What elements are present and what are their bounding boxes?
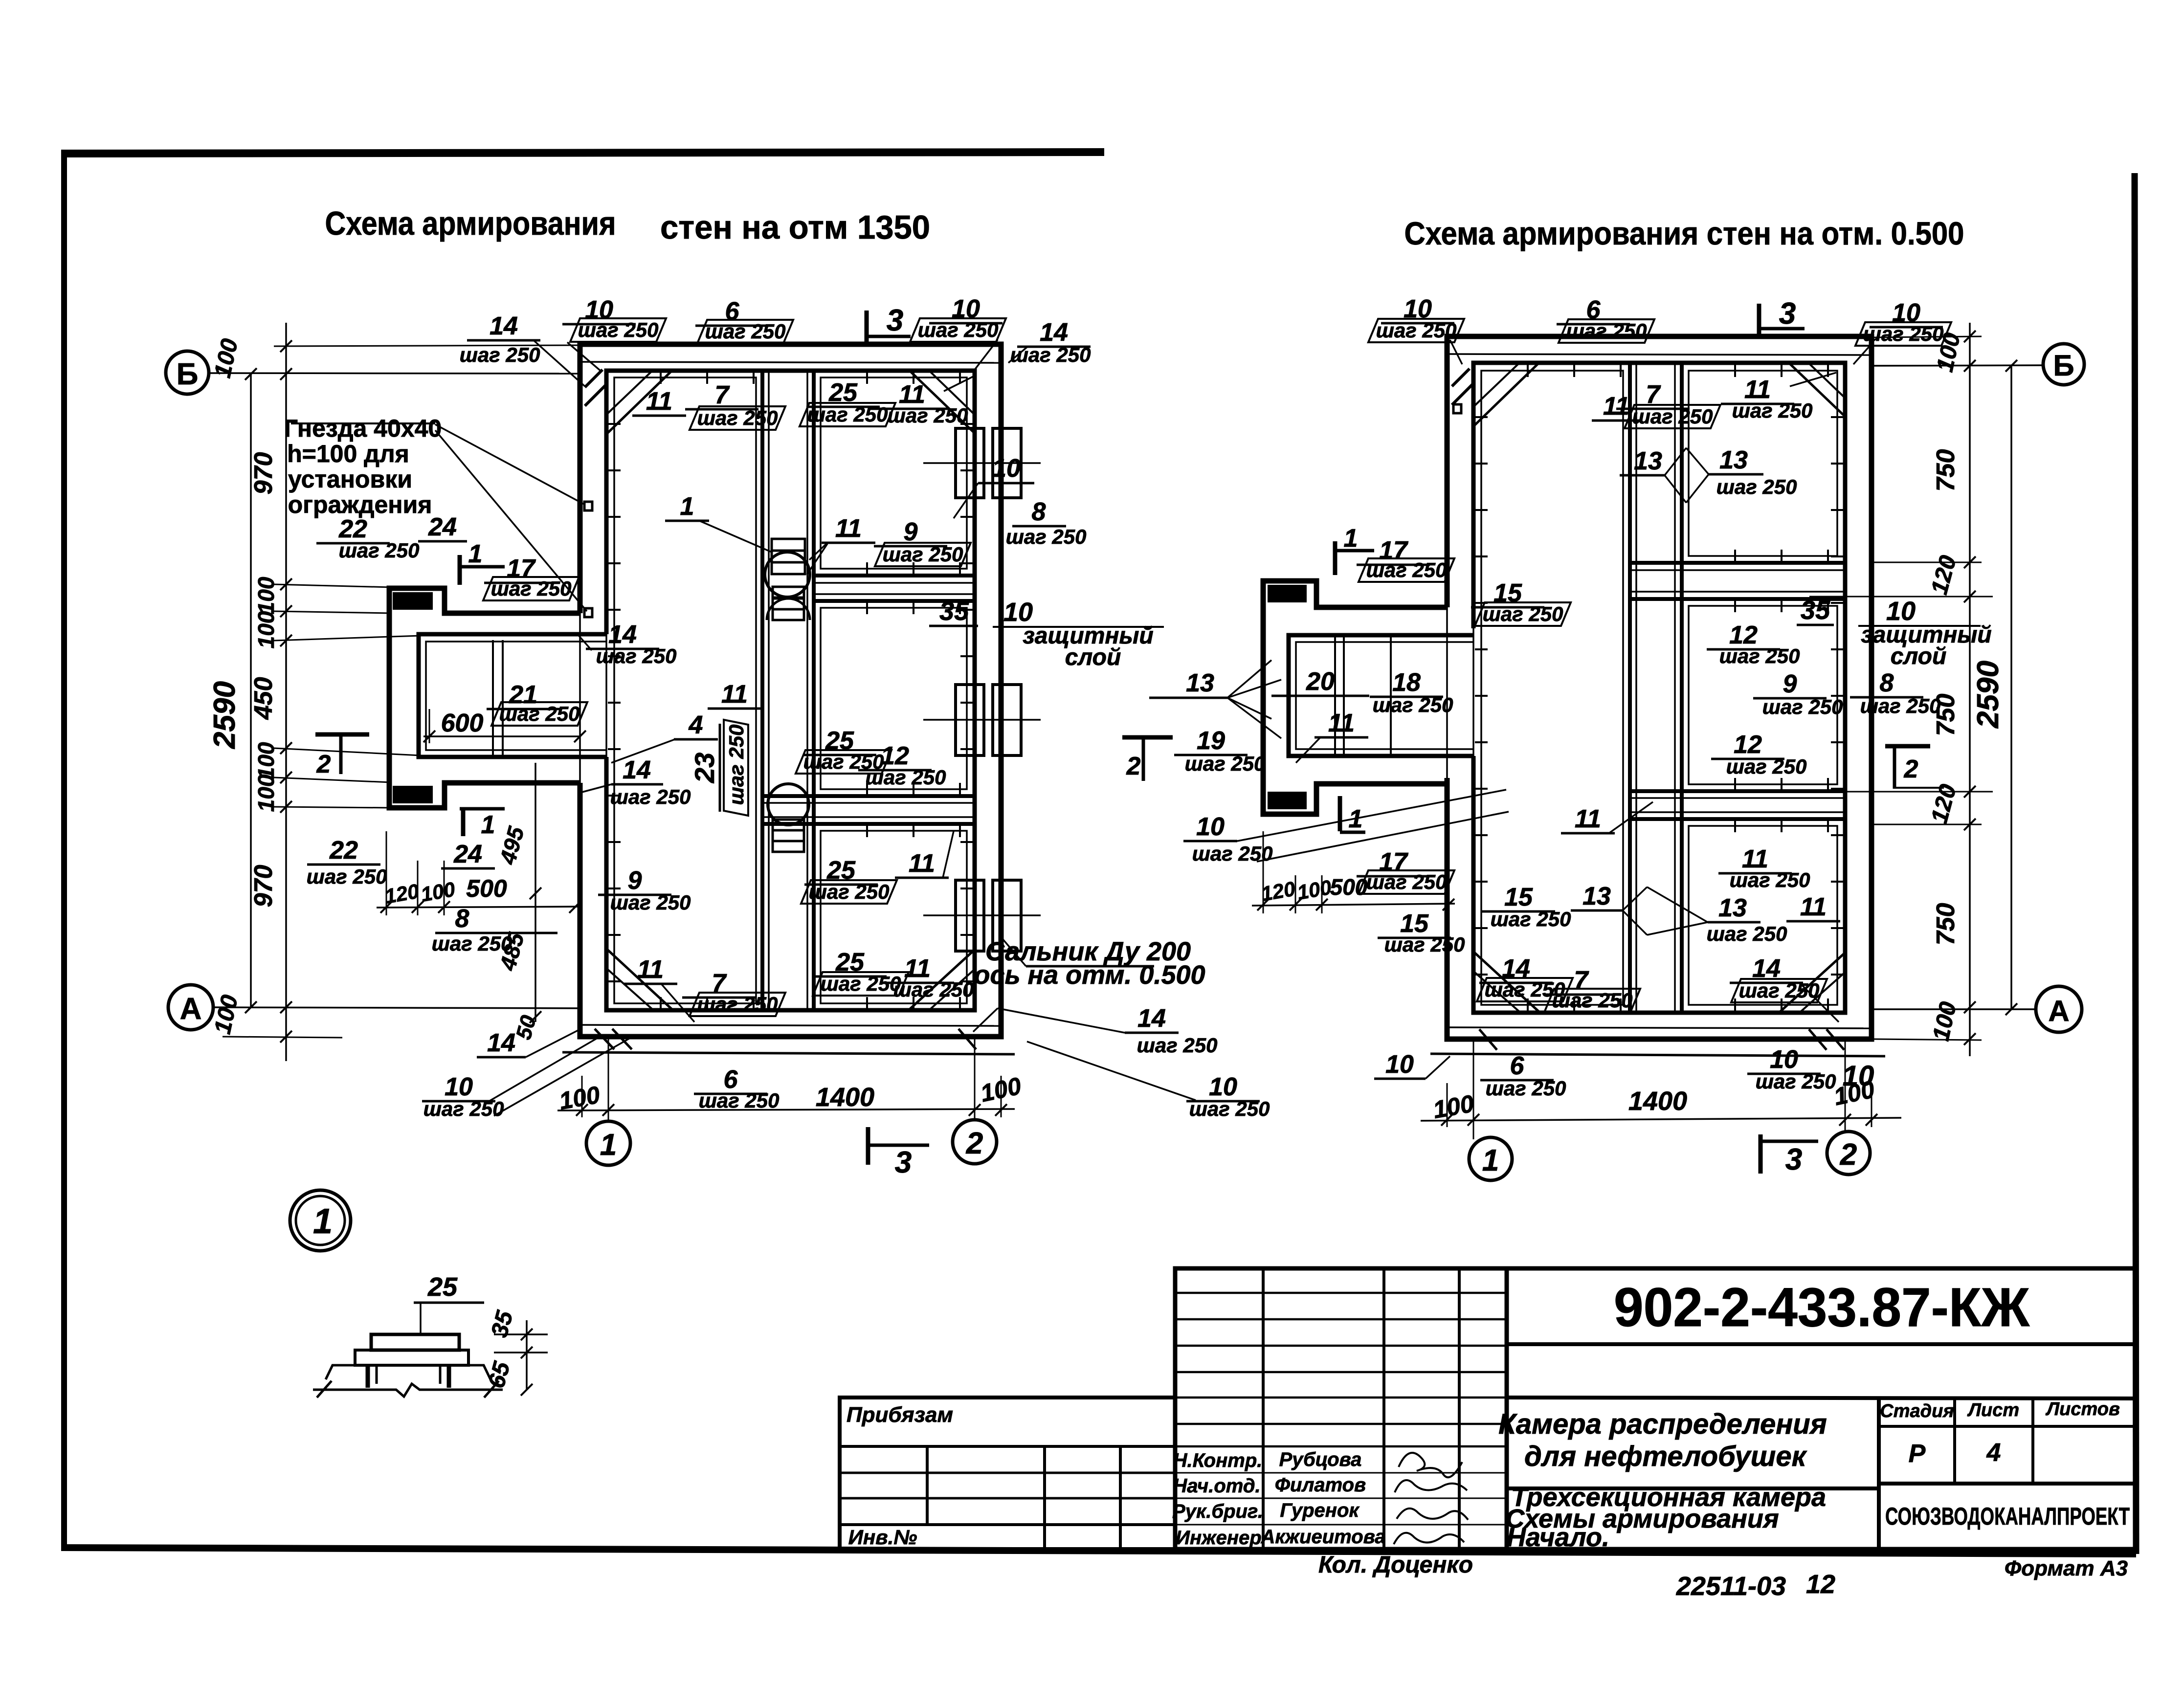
- label 11 bottom area: [624, 955, 677, 984]
- svg-text:шаг 250: шаг 250: [1730, 868, 1810, 891]
- right plan top wall mid rebar line: [1447, 354, 1872, 355]
- svg-text:2590: 2590: [1971, 661, 2005, 729]
- title block outer: [1175, 1268, 2136, 1549]
- svg-text:для нефтелобушек: для нефтелобушек: [1524, 1441, 1807, 1472]
- leader: [973, 340, 998, 372]
- section mark 2 left of right plan: [1122, 737, 1173, 781]
- section mark 3 bottom right plan: [1761, 1134, 1818, 1176]
- svg-text:Кол. Доценко: Кол. Доценко: [1318, 1552, 1473, 1578]
- axis А left line: [213, 1007, 580, 1008]
- svg-text:шаг 250: шаг 250: [610, 785, 691, 808]
- svg-text:Рубцова: Рубцова: [1279, 1449, 1362, 1470]
- svg-text:шаг 250: шаг 250: [1137, 1034, 1218, 1057]
- small table vertical lines: [1877, 1398, 1881, 1549]
- left chain tick: [280, 772, 292, 783]
- label 22 шаг250 left upper: [316, 515, 419, 562]
- right plan niche inner contour: [1289, 635, 1473, 756]
- right plan socket square on left wall: [1453, 404, 1461, 413]
- label 8 шаг250 right plan outside: [1850, 669, 1940, 717]
- svg-text:13: 13: [1186, 669, 1214, 697]
- svg-text:Камера распределения: Камера распределения: [1498, 1408, 1827, 1440]
- label 12 шаг250 above wall B: [858, 742, 946, 789]
- svg-text:установки: установки: [288, 466, 412, 493]
- niche dim line right plan: [1252, 904, 1455, 906]
- axis А right circle: [2036, 986, 2082, 1032]
- svg-text:шаг 250: шаг 250: [1863, 322, 1944, 345]
- svg-text:1400: 1400: [1628, 1087, 1687, 1116]
- label 11 below wall B right: [895, 849, 949, 878]
- svg-text:13: 13: [1582, 882, 1611, 910]
- niche dim tick: [569, 901, 581, 913]
- label 7 шаг250 under top wall: [685, 381, 785, 430]
- label 25 шаг250 below wall B: [801, 856, 897, 904]
- niche dim tick right: [1443, 899, 1454, 910]
- leaders 14: [998, 1008, 1125, 1033]
- svg-text:4: 4: [1986, 1439, 2001, 1467]
- right plan rebar rect cell2: [1689, 606, 1837, 784]
- right chain tick: [1964, 1001, 1976, 1013]
- right chain extension lines: [1874, 336, 1982, 337]
- note Гнезда 40х40 text block: [284, 415, 442, 518]
- svg-text:11: 11: [1575, 805, 1601, 833]
- svg-text:11: 11: [835, 514, 862, 543]
- label 14 шаг250 far top-right: [1010, 318, 1091, 366]
- svg-text:СОЮЗВОДОКАНАЛПРОЕКТ: СОЮЗВОДОКАНАЛПРОЕКТ: [1885, 1503, 2130, 1530]
- left plan middle wall: [760, 371, 764, 1010]
- svg-text:3: 3: [895, 1146, 912, 1179]
- niche dim tick: [380, 901, 392, 913]
- left plan socket square on wall lower: [584, 608, 592, 617]
- left plan niche inner contour: [419, 634, 606, 757]
- bottom dim tick right plan: [1468, 1114, 1479, 1126]
- axis Б left circle: [166, 351, 209, 394]
- leader: [577, 634, 592, 650]
- right plan corner hatch top-left: [1452, 369, 1470, 386]
- label 11 cell3 right: [1786, 893, 1840, 921]
- svg-text:шаг 250: шаг 250: [1376, 319, 1457, 342]
- left chain tick: [280, 578, 292, 590]
- svg-text:шаг 250: шаг 250: [1762, 695, 1843, 718]
- svg-text:3: 3: [1779, 297, 1796, 331]
- svg-text:8: 8: [1880, 669, 1894, 697]
- svg-text:Б: Б: [2053, 349, 2074, 382]
- leader 1 to gland: [699, 521, 773, 553]
- leader: [1853, 342, 1873, 364]
- svg-text:8: 8: [1032, 498, 1046, 526]
- svg-text:Стадия: Стадия: [1880, 1401, 1954, 1421]
- axis circle 2 left plan: [953, 1120, 997, 1164]
- label 12 шаг250 cell2 lower: [1711, 731, 1806, 778]
- label 11 шаг250 cell3: [1718, 845, 1810, 891]
- leader: [661, 984, 694, 1022]
- svg-text:Прибязам: Прибязам: [847, 1403, 953, 1427]
- svg-text:22: 22: [329, 836, 358, 865]
- svg-text:600: 600: [441, 709, 484, 737]
- title block left rows: [1175, 1292, 1507, 1294]
- svg-text:2: 2: [1840, 1138, 1857, 1172]
- svg-text:Н.Контр.: Н.Контр.: [1173, 1450, 1263, 1471]
- detail drawing: plate section: [313, 1334, 503, 1398]
- svg-text:шаг 250: шаг 250: [1726, 755, 1807, 778]
- left chain outer dim line: [285, 323, 287, 1061]
- svg-text:1: 1: [481, 811, 495, 839]
- svg-text:шаг 250: шаг 250: [1719, 644, 1800, 667]
- signatures: [1399, 1453, 1462, 1477]
- leader: [567, 342, 602, 372]
- left chain tick: [280, 1001, 292, 1013]
- leader: [1609, 802, 1653, 833]
- vertical dim line 495/485: [535, 763, 536, 1022]
- left plan rebar rect cell2: [821, 608, 967, 789]
- label 11 шаг250 bottom right: [881, 954, 974, 1001]
- svg-text:шаг 250: шаг 250: [432, 932, 513, 955]
- bottom dim tick: [995, 1104, 1007, 1116]
- right plan interior wall B: [1630, 789, 1845, 793]
- svg-text:слой: слой: [1891, 643, 1947, 669]
- right plan corner hatch bottom-right: [1827, 1029, 1844, 1050]
- label 10 шаг250 top-right of left plan: [910, 295, 1006, 342]
- svg-text:11: 11: [909, 849, 935, 878]
- bottom dim tick: [602, 1104, 614, 1116]
- svg-text:4: 4: [689, 711, 703, 739]
- svg-text:35: 35: [1801, 596, 1830, 625]
- label 13 шаг250 cell3: [1647, 887, 1787, 945]
- label 21 шаг250 niche: [487, 681, 587, 726]
- svg-text:шаг 250: шаг 250: [1366, 558, 1447, 581]
- right plan bottom dimension line: [1421, 1118, 1901, 1121]
- label 13 шаг250 with diamond leaders right: [1686, 446, 1797, 503]
- left plan rebar rect cell3: [821, 831, 967, 1003]
- niche dim tick: [412, 901, 423, 913]
- axis circle 1 right plan: [1469, 1137, 1512, 1180]
- svg-text:100: 100: [253, 774, 279, 812]
- label 8 шаг250 below niche left plan: [432, 905, 557, 955]
- left chain tick: [280, 368, 292, 380]
- svg-text:шаг 250: шаг 250: [307, 865, 387, 888]
- svg-text:h=100 для: h=100 для: [287, 440, 409, 467]
- svg-text:шаг 250: шаг 250: [866, 766, 946, 789]
- left chain tick: [280, 742, 292, 754]
- svg-text:3: 3: [1785, 1143, 1802, 1176]
- svg-text:шаг 250: шаг 250: [807, 403, 888, 426]
- left chain extension lines to plan: [274, 345, 582, 346]
- svg-text:18: 18: [1392, 668, 1421, 697]
- label 6 шаг250 bottom right plan: [1480, 1052, 1566, 1100]
- svg-text:100: 100: [253, 742, 279, 779]
- svg-text:1400: 1400: [816, 1083, 874, 1112]
- svg-text:11: 11: [1800, 893, 1827, 921]
- title block big cell КЖ bottom: [1507, 1342, 2136, 1346]
- small table header line: [1879, 1425, 2136, 1428]
- svg-text:шаг 250: шаг 250: [1010, 343, 1091, 366]
- label 14 шаг250 bottom left right plan: [1477, 954, 1573, 1001]
- title block band line: [1507, 1398, 2136, 1398]
- label 20 niche: [1271, 667, 1369, 696]
- leader: [533, 340, 585, 386]
- svg-text:11: 11: [1603, 392, 1629, 421]
- detail dim 25: [414, 1272, 484, 1336]
- svg-text:970: 970: [249, 452, 278, 495]
- label 15 шаг250 lower-left right plan: [1378, 910, 1465, 956]
- left plan interior wall A: [814, 574, 975, 577]
- left plan sleeve box pair 2 on right wall: [956, 685, 984, 755]
- svg-text:970: 970: [249, 865, 278, 908]
- label 13 fan leaders niche: [1149, 660, 1281, 738]
- right plan corner brace bottom-left: [1474, 953, 1539, 1012]
- svg-text:13: 13: [1634, 447, 1662, 475]
- svg-text:750: 750: [1932, 449, 1960, 492]
- small table bottom / СОЮЗ box top: [1879, 1482, 2136, 1486]
- leader: [1790, 373, 1836, 386]
- right chain tick: [1964, 360, 1976, 372]
- svg-text:14: 14: [623, 756, 651, 784]
- label 11 under top wall right plan: [1592, 392, 1641, 421]
- svg-text:13: 13: [1719, 446, 1748, 474]
- section mark 1 upper niche: [460, 540, 505, 585]
- divider for theme cell: [1507, 1486, 1879, 1490]
- label 15 шаг250 right plan: [1471, 579, 1571, 626]
- svg-text:Р: Р: [1909, 1440, 1926, 1468]
- svg-text:шаг 250: шаг 250: [1185, 752, 1266, 775]
- label 7 шаг250 right plan: [1616, 380, 1720, 428]
- bottom dim tick right plan: [1866, 1114, 1877, 1126]
- left plan corner brace bottom-left: [607, 950, 672, 1009]
- axis Б right circle: [2043, 344, 2084, 385]
- right plan inner wall contour: [1473, 363, 1845, 1013]
- left chain tick: [280, 1031, 292, 1043]
- section mark 3 top left plan: [867, 304, 911, 342]
- right plan rebar rect cell1: [1689, 371, 1837, 556]
- label 6 шаг250 top of left plan: [695, 297, 793, 343]
- section mark 3 top right plan: [1759, 297, 1805, 335]
- svg-text:14: 14: [1040, 318, 1068, 347]
- left plan niche vertical bars (pos 21): [492, 640, 494, 757]
- svg-text:450: 450: [249, 677, 278, 720]
- svg-text:2: 2: [966, 1127, 983, 1160]
- label 25 шаг250 bottom: [813, 948, 909, 996]
- svg-text:ограждения: ограждения: [288, 491, 432, 518]
- section mark 2 on left chain: [315, 734, 369, 778]
- svg-text:14: 14: [487, 1029, 515, 1057]
- svg-text:2: 2: [316, 750, 331, 778]
- label 4: [674, 711, 718, 739]
- svg-text:902-2-433.87-КЖ: 902-2-433.87-КЖ: [1614, 1277, 2030, 1338]
- svg-text:1: 1: [1349, 805, 1363, 833]
- svg-text:23: 23: [689, 753, 720, 783]
- axis circle 2 right plan: [1827, 1131, 1870, 1175]
- svg-text:11: 11: [646, 387, 672, 416]
- right plan middle wall: [1628, 363, 1632, 1013]
- label 14 шаг250 outside right bottom: [1125, 1004, 1217, 1057]
- svg-text:А: А: [180, 992, 202, 1026]
- niche dim tick right: [1316, 899, 1328, 910]
- left plan corner hatch bottom-left: [612, 1029, 632, 1049]
- svg-text:шаг 250: шаг 250: [809, 880, 890, 903]
- label 7 шаг250 bottom right plan: [1544, 966, 1640, 1012]
- extension axis 1 down: [608, 1039, 609, 1121]
- svg-text:500: 500: [466, 875, 507, 902]
- svg-text:10: 10: [1196, 813, 1225, 841]
- label 25 шаг250 above wall B: [796, 727, 891, 774]
- label 12 шаг250 cell2 upper: [1707, 621, 1800, 667]
- left plan rebar rect left room: [614, 377, 756, 1003]
- leader diagonals bottom-left: [489, 1036, 602, 1101]
- thin wall-opening continuation lines left plan: [579, 613, 581, 783]
- svg-text:шаг 250: шаг 250: [699, 1089, 780, 1112]
- right plan niche vertical bars (pos 20/18): [1334, 635, 1336, 756]
- detail dim 35: [484, 1308, 548, 1396]
- right plan niche rebar line: [1296, 642, 1473, 749]
- svg-text:14: 14: [1137, 1004, 1166, 1033]
- left plan bottom dimension line: [557, 1109, 1015, 1110]
- svg-text:13: 13: [1718, 894, 1747, 922]
- svg-text:14: 14: [490, 312, 518, 340]
- left plan niche outer contour: [389, 588, 580, 808]
- left chain tick: [280, 635, 292, 646]
- axis Б right line: [1873, 365, 2043, 366]
- svg-text:шаг 250: шаг 250: [918, 318, 999, 341]
- svg-text:Нач.отд.: Нач.отд.: [1173, 1475, 1260, 1497]
- svg-text:Инженер: Инженер: [1176, 1527, 1261, 1549]
- svg-text:1: 1: [1344, 524, 1358, 553]
- dim 600 line in niche: [423, 735, 580, 737]
- svg-text:шаг 250: шаг 250: [578, 318, 659, 341]
- bottom dim tick right plan: [1839, 1114, 1851, 1126]
- left chain tick: [280, 340, 292, 352]
- right plan corner hatch bottom-left: [1479, 1029, 1497, 1050]
- svg-text:шаг 250: шаг 250: [1384, 933, 1465, 956]
- section mark 2 right of right plan: [1885, 746, 1944, 789]
- svg-text:11: 11: [1328, 709, 1355, 737]
- svg-text:шаг 250: шаг 250: [697, 406, 778, 429]
- left plan niche socket block top: [394, 594, 431, 608]
- label 11 right of gland: [822, 514, 875, 543]
- right plan outer wall contour: [1447, 336, 1872, 1039]
- svg-text:шаг 250: шаг 250: [1491, 908, 1571, 931]
- label 17 шаг250 niche bottom right plan: [1340, 796, 1365, 833]
- svg-text:шаг 250: шаг 250: [499, 702, 580, 725]
- svg-text:шаг 250: шаг 250: [1632, 405, 1713, 428]
- right plan bottom extra outer line: [1430, 1054, 1885, 1056]
- section mark 3 bottom left plan: [868, 1127, 929, 1179]
- label 24 lower: [441, 840, 495, 868]
- right chain tick: [1964, 331, 1976, 342]
- right plan rebar rect cell3: [1689, 826, 1837, 1005]
- svg-text:1: 1: [680, 492, 694, 521]
- label 10 шаг250 far right bottom: [1186, 1073, 1270, 1120]
- svg-text:25: 25: [427, 1272, 458, 1302]
- label 14 шаг250 top-left outside: [460, 312, 540, 366]
- svg-text:10: 10: [1843, 1060, 1874, 1092]
- left plan corner brace top-right: [911, 372, 974, 432]
- svg-text:шаг 250: шаг 250: [1860, 694, 1941, 717]
- svg-text:А: А: [2048, 995, 2069, 1027]
- section mark 1 niche top right plan: [1335, 524, 1374, 575]
- svg-text:24: 24: [428, 513, 457, 541]
- niche dim tick right: [1290, 899, 1301, 910]
- detail callout circled 1: [290, 1190, 351, 1251]
- svg-text:шаг 250: шаг 250: [1756, 1070, 1836, 1093]
- label 35 / 10 защитный слой right plan: [1797, 596, 1992, 669]
- svg-text:11: 11: [637, 955, 664, 984]
- svg-text:Схема армирования стен на отм.: Схема армирования стен на отм. 0.500: [1404, 215, 1964, 251]
- right chain tick: [1964, 1033, 1976, 1045]
- label 10 шаг250 bottom-left: [422, 1073, 504, 1120]
- svg-text:шаг 250: шаг 250: [339, 539, 420, 562]
- left plan niche rebar line: [426, 642, 606, 750]
- svg-text:19: 19: [1197, 727, 1225, 755]
- svg-text:шаг 250: шаг 250: [1716, 475, 1797, 498]
- svg-text:шаг 250: шаг 250: [883, 543, 963, 566]
- svg-text:1: 1: [1482, 1144, 1499, 1177]
- label 10 bent leader right wall: [954, 454, 1034, 518]
- svg-text:Формат А3: Формат А3: [2005, 1556, 2128, 1580]
- label 10 шаг250 top-left of left plan: [562, 296, 666, 342]
- svg-text:2: 2: [1904, 755, 1918, 783]
- svg-text:10: 10: [1385, 1050, 1414, 1079]
- svg-text:8: 8: [455, 905, 469, 933]
- svg-text:1: 1: [313, 1202, 333, 1241]
- svg-text:шаг 250: шаг 250: [423, 1097, 504, 1120]
- svg-text:Гнезда 40х40: Гнезда 40х40: [284, 415, 442, 442]
- label 14 шаг250 bottom right right plan: [1730, 954, 1827, 1002]
- axis А right line: [1873, 1008, 2036, 1010]
- section mark 1 lower niche left plan: [460, 808, 505, 839]
- label 9 шаг250 cell1 left plan: [874, 518, 971, 566]
- page border bottom: [61, 1548, 2136, 1554]
- label 22 шаг250 bottom left outside: [307, 836, 387, 888]
- label 10 bottom-left right plan: [1374, 1050, 1450, 1079]
- axis circle 1 left plan: [586, 1121, 630, 1165]
- left chain tick: [280, 801, 292, 813]
- svg-text:2: 2: [1126, 752, 1141, 780]
- svg-text:шаг 250: шаг 250: [1366, 870, 1447, 893]
- leader: [1296, 737, 1320, 763]
- svg-text:3: 3: [887, 304, 903, 337]
- svg-text:100: 100: [253, 577, 279, 614]
- leaders 11 to gland: [809, 543, 827, 560]
- svg-text:Начало.: Начало.: [1507, 1523, 1609, 1552]
- svg-text:шаг 250: шаг 250: [1566, 319, 1647, 342]
- svg-text:6: 6: [1510, 1052, 1525, 1080]
- rebar tick marks left plan: [608, 371, 973, 1010]
- label 14 шаг250 left wall: [586, 621, 676, 667]
- svg-text:7: 7: [715, 381, 730, 409]
- svg-text:Акжиеитова: Акжиеитова: [1260, 1526, 1385, 1548]
- right chain tick: [1964, 591, 1976, 602]
- right plan interior wall A: [1630, 561, 1845, 565]
- right plan niche socket block top: [1269, 586, 1305, 601]
- svg-text:шаг 250: шаг 250: [1373, 693, 1453, 716]
- axis А left circle: [168, 985, 213, 1030]
- bottom dim tick: [969, 1104, 981, 1116]
- label 17 шаг250 below niche right plan: [1357, 848, 1454, 894]
- niche dim tick: [438, 901, 450, 913]
- svg-text:шаг 250: шаг 250: [1006, 525, 1087, 548]
- right chain tick: [1964, 819, 1976, 830]
- leader: [1450, 340, 1462, 364]
- svg-text:24: 24: [453, 840, 482, 868]
- left plan outer wall contour: [580, 344, 1001, 1037]
- left plan top wall mid rebar line: [580, 362, 1001, 363]
- svg-text:шаг 250: шаг 250: [460, 343, 540, 366]
- svg-text:Рук.бриг.: Рук.бриг.: [1172, 1501, 1263, 1522]
- label 35 / 10 защитный слой left plan: [929, 597, 1164, 670]
- bottom dim tick right plan: [1441, 1114, 1453, 1126]
- label 19 шаг250 niche left: [1174, 727, 1265, 775]
- left plan corner hatch top-left: [585, 370, 602, 387]
- right chain inner dim line (2590): [2010, 366, 2012, 1009]
